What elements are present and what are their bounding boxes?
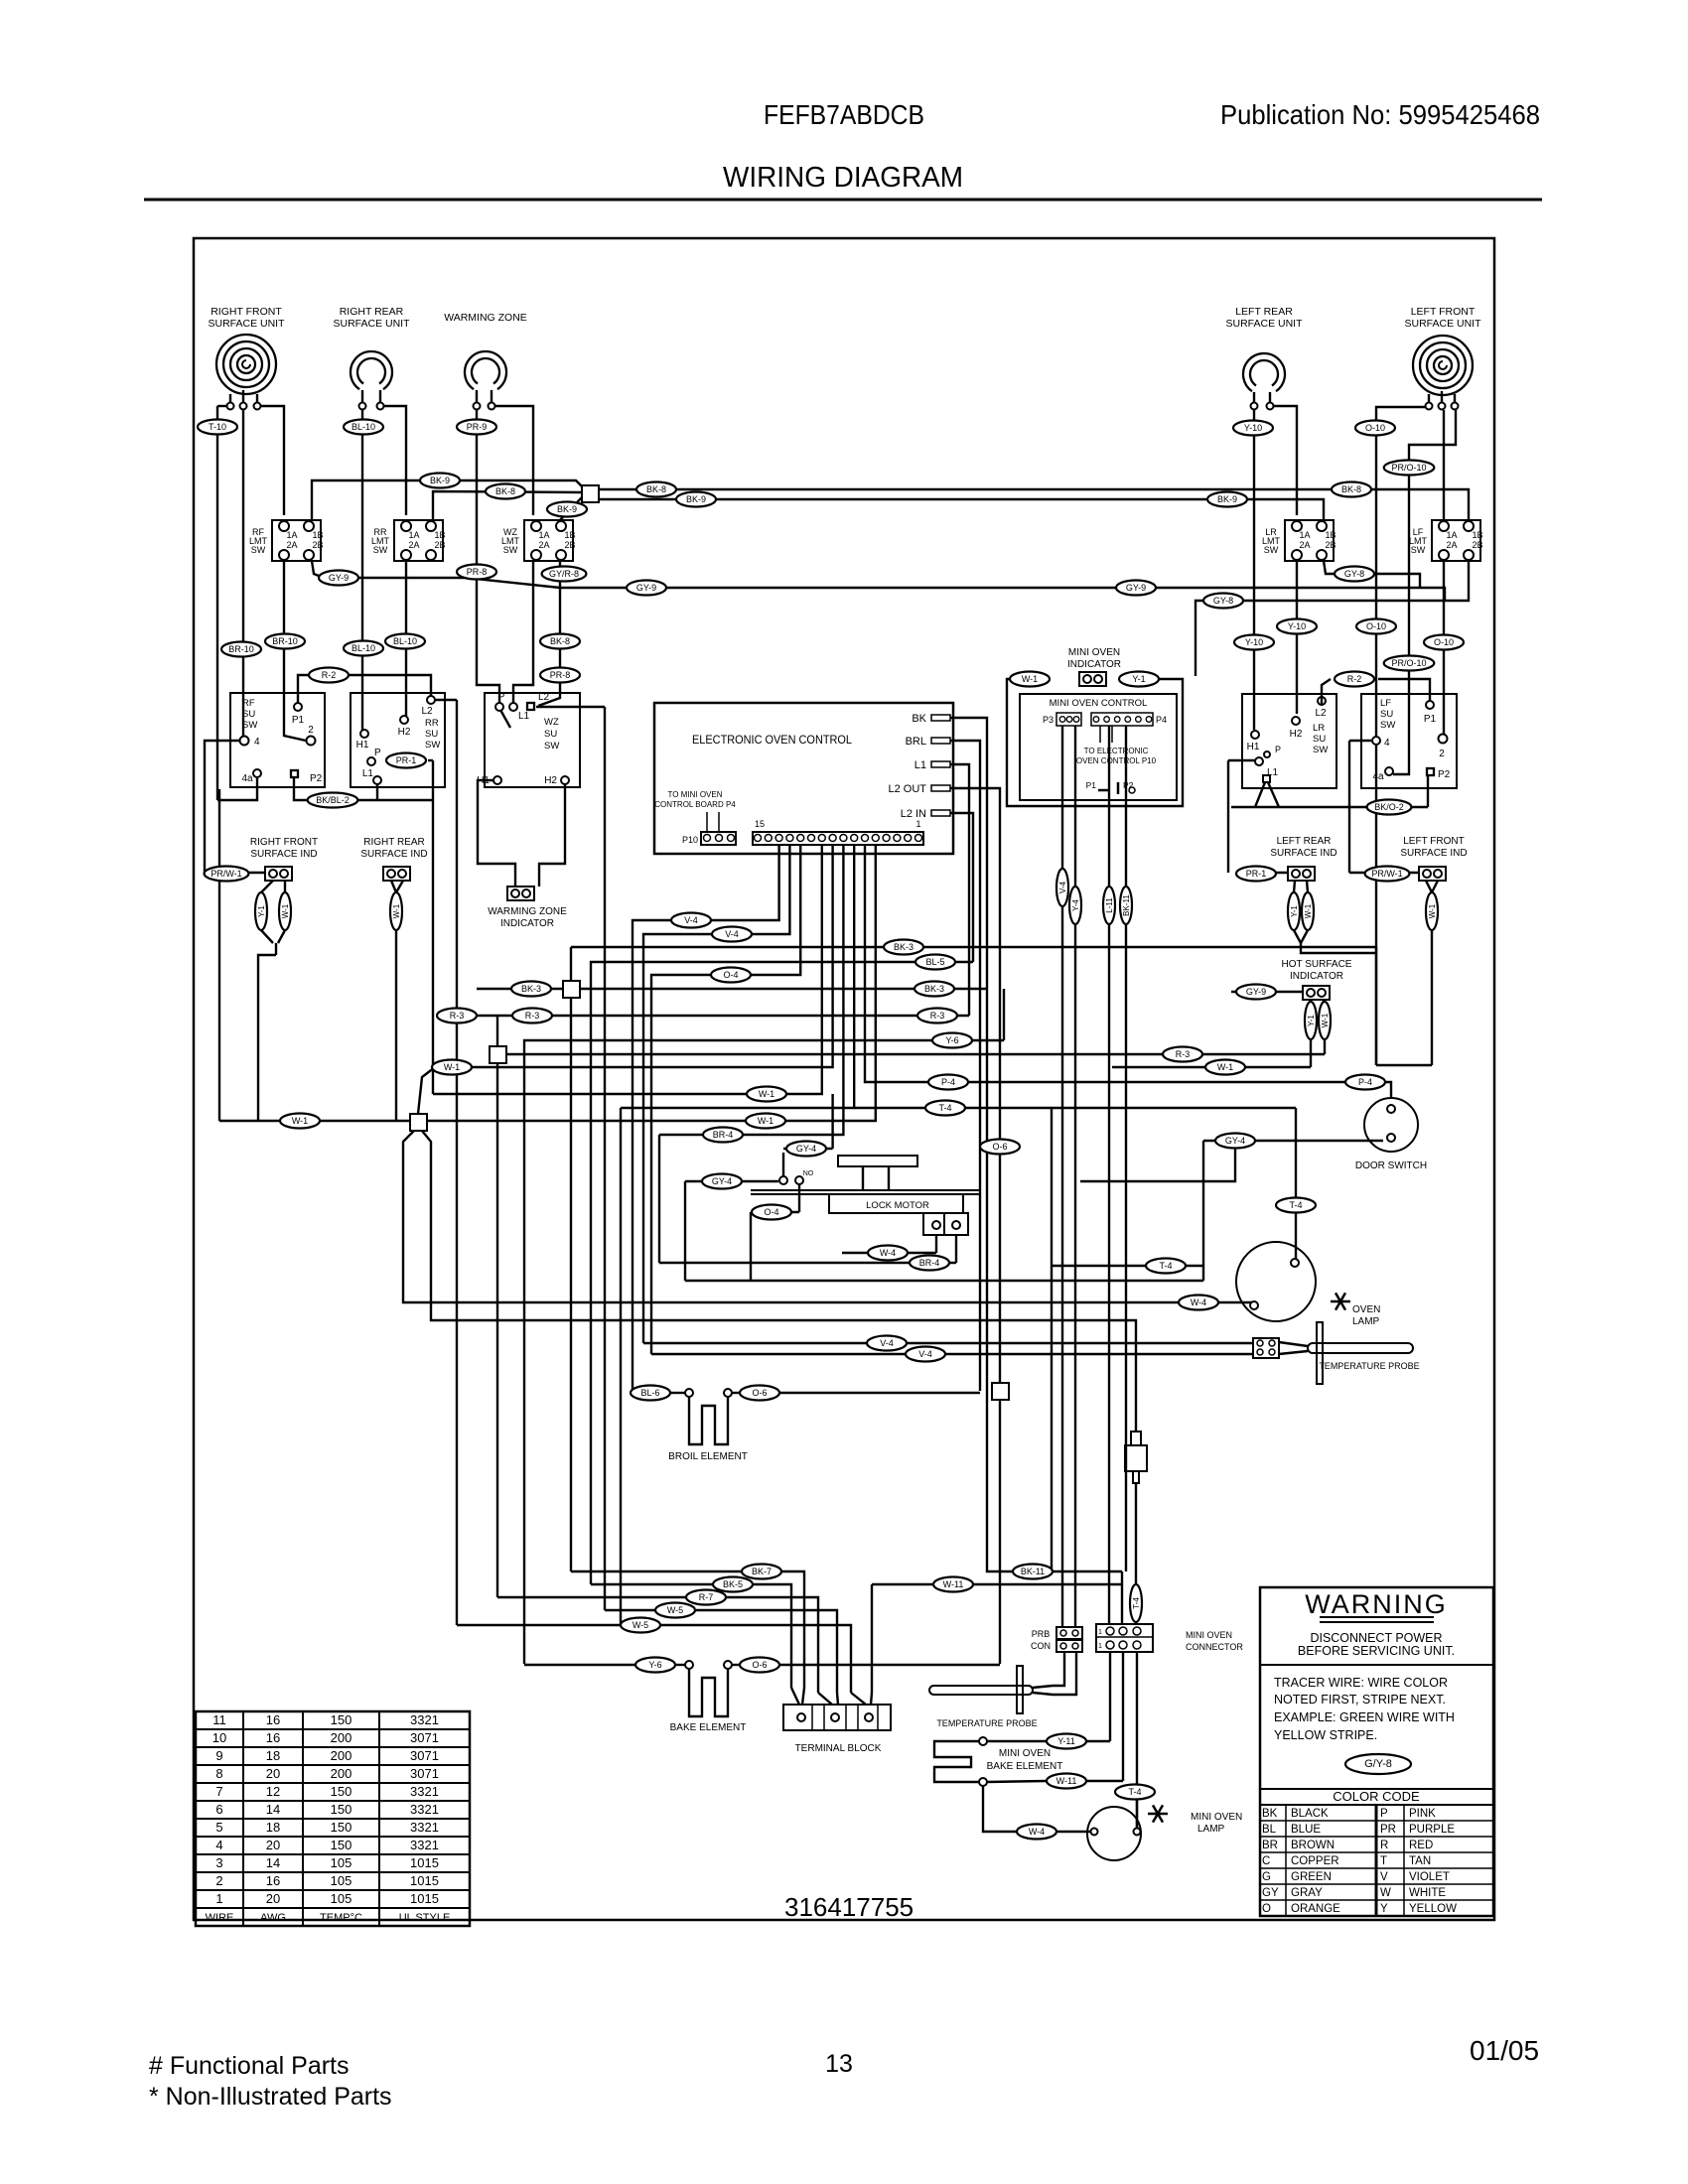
svg-text:150: 150 bbox=[331, 1784, 352, 1799]
svg-text:13: 13 bbox=[825, 2050, 853, 2078]
svg-text:GY-9: GY-9 bbox=[1246, 987, 1266, 997]
svg-text:CON: CON bbox=[1031, 1641, 1051, 1651]
svg-text:PURPLE: PURPLE bbox=[1409, 1824, 1455, 1836]
svg-text:200: 200 bbox=[331, 1766, 352, 1781]
svg-text:MINI OVEN: MINI OVEN bbox=[1191, 1812, 1242, 1823]
svg-text:P3: P3 bbox=[1043, 715, 1054, 725]
svg-text:Y: Y bbox=[1380, 1903, 1388, 1915]
svg-text:SU: SU bbox=[1380, 709, 1393, 720]
svg-text:2B: 2B bbox=[1472, 540, 1482, 550]
svg-text:200: 200 bbox=[331, 1730, 352, 1745]
svg-text:BAKE ELEMENT: BAKE ELEMENT bbox=[670, 1722, 747, 1733]
svg-text:1A: 1A bbox=[408, 530, 419, 540]
svg-text:TO ELECTRONIC: TO ELECTRONIC bbox=[1084, 747, 1149, 755]
svg-text:SURFACE UNIT: SURFACE UNIT bbox=[1404, 318, 1481, 330]
svg-text:O: O bbox=[1262, 1903, 1271, 1915]
svg-text:1015: 1015 bbox=[410, 1891, 439, 1906]
svg-text:4: 4 bbox=[1384, 738, 1390, 749]
svg-text:BK-8: BK-8 bbox=[495, 486, 515, 496]
svg-text:16: 16 bbox=[266, 1873, 280, 1888]
svg-text:BK-8: BK-8 bbox=[1341, 484, 1361, 494]
svg-text:BAKE ELEMENT: BAKE ELEMENT bbox=[987, 1761, 1063, 1772]
svg-text:3071: 3071 bbox=[410, 1748, 439, 1763]
svg-text:4a: 4a bbox=[241, 773, 253, 784]
svg-text:NO: NO bbox=[803, 1170, 814, 1177]
svg-text:1A: 1A bbox=[1446, 530, 1457, 540]
svg-text:P1: P1 bbox=[1086, 780, 1097, 790]
svg-text:1015: 1015 bbox=[410, 1873, 439, 1888]
svg-text:BK-9: BK-9 bbox=[1217, 494, 1237, 504]
svg-text:SW: SW bbox=[425, 740, 440, 751]
svg-text:BK/BL-2: BK/BL-2 bbox=[316, 795, 350, 805]
svg-text:P: P bbox=[1275, 745, 1281, 754]
svg-text:2B: 2B bbox=[312, 540, 323, 550]
svg-text:ELECTRONIC OVEN CONTROL: ELECTRONIC OVEN CONTROL bbox=[692, 735, 853, 747]
svg-text:YELLOW: YELLOW bbox=[1409, 1903, 1457, 1915]
svg-text:BROIL ELEMENT: BROIL ELEMENT bbox=[668, 1451, 748, 1462]
svg-text:V-4: V-4 bbox=[918, 1349, 932, 1359]
svg-text:1B: 1B bbox=[1325, 530, 1336, 540]
svg-text:BRL: BRL bbox=[906, 736, 926, 748]
svg-text:R-2: R-2 bbox=[1347, 674, 1362, 684]
svg-text:150: 150 bbox=[331, 1802, 352, 1817]
svg-text:W-1: W-1 bbox=[392, 903, 401, 918]
svg-text:W: W bbox=[1380, 1887, 1391, 1899]
svg-text:1A: 1A bbox=[286, 530, 297, 540]
svg-text:BK-5: BK-5 bbox=[723, 1579, 743, 1589]
svg-text:LEFT REAR: LEFT REAR bbox=[1235, 306, 1293, 318]
svg-text:INDICATOR: INDICATOR bbox=[500, 918, 554, 929]
svg-text:RIGHT FRONT: RIGHT FRONT bbox=[211, 306, 282, 318]
svg-text:316417755: 316417755 bbox=[784, 1892, 914, 1922]
svg-text:BK-11: BK-11 bbox=[1122, 894, 1131, 916]
svg-text:20: 20 bbox=[266, 1838, 280, 1852]
svg-text:1A: 1A bbox=[538, 530, 549, 540]
svg-text:DISCONNECT POWER: DISCONNECT POWER bbox=[1310, 1631, 1442, 1645]
svg-text:R-3: R-3 bbox=[930, 1011, 945, 1021]
svg-text:L2 IN: L2 IN bbox=[901, 808, 926, 820]
svg-text:Publication No: 5995425468: Publication No: 5995425468 bbox=[1220, 99, 1540, 130]
svg-text:SURFACE IND: SURFACE IND bbox=[1400, 848, 1467, 859]
svg-text:5: 5 bbox=[215, 1820, 222, 1835]
svg-text:DOOR SWITCH: DOOR SWITCH bbox=[1355, 1160, 1427, 1171]
svg-text:PR/W-1: PR/W-1 bbox=[1371, 869, 1402, 879]
svg-text:GY-4: GY-4 bbox=[712, 1176, 732, 1186]
svg-text:1B: 1B bbox=[312, 530, 323, 540]
svg-text:3321: 3321 bbox=[410, 1820, 439, 1835]
svg-text:H1: H1 bbox=[356, 740, 369, 751]
svg-text:1B: 1B bbox=[564, 530, 575, 540]
svg-text:C: C bbox=[1262, 1855, 1270, 1867]
svg-text:200: 200 bbox=[331, 1748, 352, 1763]
svg-text:W-1: W-1 bbox=[292, 1116, 308, 1126]
svg-text:BK-9: BK-9 bbox=[686, 494, 706, 504]
svg-text:W-1: W-1 bbox=[444, 1062, 460, 1072]
svg-text:BL-10: BL-10 bbox=[393, 636, 417, 646]
svg-text:PINK: PINK bbox=[1409, 1808, 1436, 1820]
svg-text:T-4: T-4 bbox=[1132, 1597, 1141, 1609]
svg-text:SURFACE IND: SURFACE IND bbox=[360, 849, 427, 860]
svg-text:BK: BK bbox=[1262, 1808, 1278, 1820]
svg-text:PR-8: PR-8 bbox=[467, 567, 488, 577]
svg-text:SW: SW bbox=[1411, 545, 1426, 555]
svg-text:2: 2 bbox=[215, 1873, 222, 1888]
svg-text:3071: 3071 bbox=[410, 1766, 439, 1781]
svg-text:15: 15 bbox=[755, 819, 765, 829]
svg-text:PR-1: PR-1 bbox=[396, 755, 417, 765]
svg-text:12: 12 bbox=[266, 1784, 280, 1799]
svg-text:3: 3 bbox=[215, 1855, 222, 1870]
svg-text:1015: 1015 bbox=[410, 1855, 439, 1870]
svg-text:SW: SW bbox=[373, 545, 388, 555]
svg-text:BL-6: BL-6 bbox=[640, 1388, 659, 1398]
svg-text:SURFACE IND: SURFACE IND bbox=[1270, 848, 1336, 859]
svg-text:SU: SU bbox=[1313, 734, 1326, 745]
svg-text:MINI OVEN: MINI OVEN bbox=[999, 1748, 1051, 1759]
svg-text:1: 1 bbox=[1098, 1643, 1102, 1650]
svg-text:V-4: V-4 bbox=[725, 929, 739, 939]
svg-text:LEFT FRONT: LEFT FRONT bbox=[1411, 306, 1476, 318]
svg-text:SW: SW bbox=[503, 545, 518, 555]
svg-text:V-4: V-4 bbox=[684, 915, 698, 925]
svg-text:1: 1 bbox=[1098, 1629, 1102, 1636]
svg-text:105: 105 bbox=[331, 1855, 352, 1870]
svg-text:L-11: L-11 bbox=[1105, 897, 1114, 913]
svg-text:BK-8: BK-8 bbox=[550, 636, 570, 646]
svg-text:BLACK: BLACK bbox=[1291, 1808, 1329, 1820]
svg-text:SW: SW bbox=[242, 720, 257, 731]
svg-text:W-11: W-11 bbox=[1056, 1776, 1077, 1786]
svg-text:BK-7: BK-7 bbox=[752, 1567, 772, 1576]
svg-text:BK-3: BK-3 bbox=[521, 984, 541, 994]
svg-text:T: T bbox=[1380, 1855, 1387, 1867]
svg-text:CONNECTOR: CONNECTOR bbox=[1186, 1642, 1243, 1652]
svg-text:BR-4: BR-4 bbox=[713, 1130, 734, 1140]
svg-text:1: 1 bbox=[215, 1891, 222, 1906]
svg-text:WARMING ZONE: WARMING ZONE bbox=[488, 906, 567, 917]
svg-text:BL: BL bbox=[1262, 1824, 1277, 1836]
svg-text:O-4: O-4 bbox=[723, 970, 738, 980]
svg-text:L2: L2 bbox=[421, 706, 433, 717]
svg-text:O-10: O-10 bbox=[1434, 637, 1454, 647]
svg-text:W-1: W-1 bbox=[1022, 674, 1038, 684]
svg-text:P: P bbox=[374, 748, 381, 758]
svg-text:PR/O-10: PR/O-10 bbox=[1391, 463, 1426, 473]
svg-text:RED: RED bbox=[1409, 1840, 1433, 1851]
svg-text:GY/R-8: GY/R-8 bbox=[549, 569, 579, 579]
svg-text:Y-1: Y-1 bbox=[257, 905, 266, 917]
svg-text:8: 8 bbox=[215, 1766, 222, 1781]
svg-text:Y-4: Y-4 bbox=[1071, 899, 1080, 911]
svg-text:TEMPERATURE PROBE: TEMPERATURE PROBE bbox=[1319, 1361, 1419, 1371]
svg-text:GY: GY bbox=[1262, 1887, 1279, 1899]
svg-text:* Non-Illustrated Parts: * Non-Illustrated Parts bbox=[149, 2083, 392, 2111]
svg-text:Y-10: Y-10 bbox=[1288, 621, 1306, 631]
svg-text:OVEN: OVEN bbox=[1352, 1304, 1380, 1315]
svg-text:2A: 2A bbox=[1299, 540, 1310, 550]
svg-text:SW: SW bbox=[1380, 720, 1395, 731]
svg-text:W-11: W-11 bbox=[943, 1579, 964, 1589]
svg-text:GY-9: GY-9 bbox=[1126, 583, 1146, 593]
svg-text:BK-8: BK-8 bbox=[646, 484, 666, 494]
svg-text:W-4: W-4 bbox=[880, 1248, 896, 1258]
svg-text:BK-9: BK-9 bbox=[557, 504, 577, 514]
svg-text:PR/W-1: PR/W-1 bbox=[211, 869, 241, 879]
svg-text:3321: 3321 bbox=[410, 1802, 439, 1817]
svg-text:W-4: W-4 bbox=[1029, 1827, 1045, 1837]
svg-text:AWG: AWG bbox=[260, 1912, 286, 1924]
svg-text:BR-10: BR-10 bbox=[228, 644, 254, 654]
svg-text:GY-8: GY-8 bbox=[1213, 596, 1233, 606]
svg-text:H2: H2 bbox=[544, 775, 557, 786]
svg-text:6: 6 bbox=[215, 1802, 222, 1817]
svg-text:WIRING DIAGRAM: WIRING DIAGRAM bbox=[723, 162, 963, 194]
svg-text:BK/O-2: BK/O-2 bbox=[1374, 802, 1404, 812]
svg-text:HOT SURFACE: HOT SURFACE bbox=[1282, 959, 1352, 970]
svg-text:SW: SW bbox=[251, 545, 266, 555]
svg-text:16: 16 bbox=[266, 1730, 280, 1745]
svg-text:SU: SU bbox=[425, 729, 438, 740]
svg-text:PR: PR bbox=[1380, 1824, 1396, 1836]
svg-text:BK-3: BK-3 bbox=[924, 984, 944, 994]
svg-text:LEFT FRONT: LEFT FRONT bbox=[1403, 836, 1464, 847]
svg-text:16: 16 bbox=[266, 1712, 280, 1727]
svg-text:ORANGE: ORANGE bbox=[1291, 1903, 1340, 1915]
svg-text:2B: 2B bbox=[434, 540, 445, 550]
svg-text:W-1: W-1 bbox=[1321, 1013, 1330, 1027]
svg-text:W-1: W-1 bbox=[1304, 903, 1313, 918]
svg-text:3321: 3321 bbox=[410, 1838, 439, 1852]
svg-text:20: 20 bbox=[266, 1766, 280, 1781]
svg-text:4a: 4a bbox=[1372, 771, 1384, 782]
svg-text:O-4: O-4 bbox=[764, 1207, 778, 1217]
svg-text:Y-6: Y-6 bbox=[648, 1660, 661, 1670]
svg-text:BK: BK bbox=[912, 713, 926, 725]
svg-text:01/05: 01/05 bbox=[1470, 2035, 1539, 2066]
svg-text:COLOR CODE: COLOR CODE bbox=[1333, 1789, 1420, 1804]
svg-text:V-4: V-4 bbox=[1058, 881, 1067, 893]
svg-text:W-1: W-1 bbox=[1428, 903, 1437, 918]
svg-text:O-10: O-10 bbox=[1365, 423, 1385, 433]
svg-text:GY-8: GY-8 bbox=[1344, 569, 1364, 579]
svg-text:P: P bbox=[1380, 1808, 1388, 1820]
svg-text:O-10: O-10 bbox=[1366, 621, 1386, 631]
svg-text:PR-1: PR-1 bbox=[1246, 869, 1267, 879]
svg-text:SW: SW bbox=[1264, 545, 1279, 555]
svg-text:R-3: R-3 bbox=[525, 1011, 540, 1021]
svg-text:BR: BR bbox=[1262, 1840, 1278, 1851]
svg-text:L2: L2 bbox=[1315, 708, 1327, 719]
svg-text:L1: L1 bbox=[914, 759, 926, 771]
svg-text:11: 11 bbox=[212, 1712, 226, 1727]
svg-text:1A: 1A bbox=[1299, 530, 1310, 540]
svg-text:P-4: P-4 bbox=[1358, 1077, 1372, 1087]
svg-text:G/Y-8: G/Y-8 bbox=[1364, 1758, 1392, 1770]
svg-text:Y-11: Y-11 bbox=[1057, 1736, 1075, 1746]
svg-text:OVEN CONTROL P10: OVEN CONTROL P10 bbox=[1076, 756, 1157, 765]
svg-text:TEMP°C: TEMP°C bbox=[320, 1912, 362, 1924]
svg-text:BL-10: BL-10 bbox=[352, 643, 375, 653]
svg-text:SURFACE UNIT: SURFACE UNIT bbox=[208, 318, 285, 330]
svg-text:H2: H2 bbox=[1290, 729, 1303, 740]
svg-text:GY-4: GY-4 bbox=[1225, 1136, 1245, 1146]
svg-text:GY-4: GY-4 bbox=[796, 1144, 816, 1154]
svg-text:3071: 3071 bbox=[410, 1730, 439, 1745]
svg-text:W-1: W-1 bbox=[759, 1089, 774, 1099]
svg-text:T-4: T-4 bbox=[1128, 1787, 1141, 1797]
svg-text:2B: 2B bbox=[1325, 540, 1336, 550]
svg-text:RIGHT REAR: RIGHT REAR bbox=[363, 837, 425, 848]
svg-text:1B: 1B bbox=[1472, 530, 1482, 540]
svg-text:BK-9: BK-9 bbox=[430, 476, 450, 485]
svg-text:2: 2 bbox=[308, 725, 314, 736]
svg-text:14: 14 bbox=[266, 1855, 280, 1870]
svg-text:Y-10: Y-10 bbox=[1245, 637, 1263, 647]
svg-text:BR-4: BR-4 bbox=[919, 1258, 940, 1268]
svg-text:SU: SU bbox=[544, 729, 557, 740]
svg-text:P2: P2 bbox=[310, 773, 323, 784]
svg-text:150: 150 bbox=[331, 1820, 352, 1835]
svg-text:LEFT REAR: LEFT REAR bbox=[1277, 836, 1332, 847]
svg-text:BR-10: BR-10 bbox=[272, 636, 298, 646]
svg-text:RIGHT REAR: RIGHT REAR bbox=[340, 306, 404, 318]
svg-text:MINI OVEN: MINI OVEN bbox=[1186, 1630, 1232, 1640]
svg-text:BK-11: BK-11 bbox=[1021, 1567, 1045, 1576]
svg-text:R-3: R-3 bbox=[1176, 1049, 1191, 1059]
svg-text:150: 150 bbox=[331, 1712, 352, 1727]
svg-text:SURFACE UNIT: SURFACE UNIT bbox=[333, 318, 410, 330]
svg-text:T-4: T-4 bbox=[1289, 1200, 1302, 1210]
svg-text:GRAY: GRAY bbox=[1291, 1887, 1323, 1899]
svg-text:T-10: T-10 bbox=[209, 422, 226, 432]
svg-text:14: 14 bbox=[266, 1802, 280, 1817]
svg-text:NOTED FIRST, STRIPE NEXT.: NOTED FIRST, STRIPE NEXT. bbox=[1274, 1693, 1446, 1706]
svg-text:GY-9: GY-9 bbox=[329, 573, 349, 583]
svg-text:P2: P2 bbox=[1438, 769, 1451, 780]
svg-text:L1: L1 bbox=[1267, 767, 1279, 778]
svg-text:PR-8: PR-8 bbox=[550, 670, 571, 680]
svg-text:18: 18 bbox=[266, 1820, 280, 1835]
svg-text:2A: 2A bbox=[1446, 540, 1457, 550]
svg-text:PR-9: PR-9 bbox=[467, 422, 488, 432]
svg-text:P4: P4 bbox=[1156, 715, 1167, 725]
svg-text:R: R bbox=[1380, 1840, 1388, 1851]
svg-text:TAN: TAN bbox=[1409, 1855, 1431, 1867]
svg-text:T-4: T-4 bbox=[1159, 1261, 1172, 1271]
svg-text:GREEN: GREEN bbox=[1291, 1871, 1332, 1883]
svg-text:O-6: O-6 bbox=[992, 1142, 1007, 1152]
svg-text:Y-1: Y-1 bbox=[1290, 905, 1299, 917]
svg-text:O-6: O-6 bbox=[752, 1660, 767, 1670]
svg-text:W-4: W-4 bbox=[1191, 1297, 1206, 1307]
svg-text:Y-1: Y-1 bbox=[1132, 674, 1145, 684]
svg-text:WIRE: WIRE bbox=[206, 1912, 234, 1924]
svg-text:R-3: R-3 bbox=[450, 1011, 465, 1021]
svg-text:1B: 1B bbox=[434, 530, 445, 540]
svg-text:FEFB7ABDCB: FEFB7ABDCB bbox=[764, 99, 924, 130]
svg-text:SURFACE IND: SURFACE IND bbox=[250, 849, 317, 860]
svg-text:MINI OVEN: MINI OVEN bbox=[1068, 647, 1120, 658]
svg-text:CONTROL BOARD P4: CONTROL BOARD P4 bbox=[654, 800, 736, 809]
svg-text:BL-5: BL-5 bbox=[925, 957, 944, 967]
svg-text:MINI OVEN CONTROL: MINI OVEN CONTROL bbox=[1050, 698, 1148, 709]
svg-text:4: 4 bbox=[215, 1838, 222, 1852]
svg-text:2A: 2A bbox=[538, 540, 549, 550]
svg-text:GY-9: GY-9 bbox=[636, 583, 656, 593]
svg-text:H2: H2 bbox=[398, 727, 411, 738]
svg-text:SURFACE UNIT: SURFACE UNIT bbox=[1225, 318, 1303, 330]
svg-text:RIGHT FRONT: RIGHT FRONT bbox=[250, 837, 318, 848]
svg-text:BL-10: BL-10 bbox=[352, 422, 375, 432]
svg-text:W-1: W-1 bbox=[1217, 1062, 1233, 1072]
svg-text:O-6: O-6 bbox=[752, 1388, 767, 1398]
svg-text:18: 18 bbox=[266, 1748, 280, 1763]
svg-text:105: 105 bbox=[331, 1873, 352, 1888]
svg-text:L1: L1 bbox=[518, 711, 530, 722]
svg-text:2A: 2A bbox=[408, 540, 419, 550]
svg-text:LAMP: LAMP bbox=[1197, 1824, 1225, 1835]
svg-text:2: 2 bbox=[1439, 749, 1445, 759]
svg-text:L2 OUT: L2 OUT bbox=[888, 783, 926, 795]
svg-text:4: 4 bbox=[254, 737, 260, 748]
svg-text:R-7: R-7 bbox=[699, 1592, 714, 1602]
svg-text:L1: L1 bbox=[362, 768, 374, 779]
svg-text:RR: RR bbox=[425, 718, 439, 729]
svg-text:SW: SW bbox=[1313, 745, 1328, 755]
svg-text:UL STYLE: UL STYLE bbox=[399, 1912, 451, 1924]
svg-text:WHITE: WHITE bbox=[1409, 1887, 1446, 1899]
svg-text:SW: SW bbox=[544, 741, 559, 751]
svg-text:WARMING ZONE: WARMING ZONE bbox=[444, 312, 527, 324]
svg-text:Y-10: Y-10 bbox=[1244, 423, 1262, 433]
svg-text:W-5: W-5 bbox=[633, 1620, 648, 1630]
svg-text:VIOLET: VIOLET bbox=[1409, 1871, 1450, 1883]
svg-text:150: 150 bbox=[331, 1838, 352, 1852]
svg-text:BROWN: BROWN bbox=[1291, 1840, 1335, 1851]
svg-text:TEMPERATURE PROBE: TEMPERATURE PROBE bbox=[936, 1718, 1037, 1728]
svg-text:W-5: W-5 bbox=[667, 1605, 683, 1615]
svg-text:V: V bbox=[1380, 1871, 1388, 1883]
svg-text:Y-1: Y-1 bbox=[1307, 1015, 1316, 1026]
svg-text:BLUE: BLUE bbox=[1291, 1824, 1321, 1836]
svg-text:3321: 3321 bbox=[410, 1784, 439, 1799]
svg-text:P10: P10 bbox=[682, 835, 698, 845]
svg-text:TERMINAL BLOCK: TERMINAL BLOCK bbox=[795, 1743, 882, 1754]
svg-text:TO MINI OVEN: TO MINI OVEN bbox=[668, 790, 723, 799]
svg-text:P1: P1 bbox=[292, 715, 305, 726]
svg-text:TRACER WIRE: WIRE COLOR: TRACER WIRE: WIRE COLOR bbox=[1274, 1676, 1448, 1690]
svg-text:P1: P1 bbox=[1424, 714, 1437, 725]
svg-text:COPPER: COPPER bbox=[1291, 1855, 1339, 1867]
svg-text:LR: LR bbox=[1313, 723, 1325, 734]
svg-text:P-4: P-4 bbox=[941, 1077, 955, 1087]
svg-text:105: 105 bbox=[331, 1891, 352, 1906]
svg-text:# Functional Parts: # Functional Parts bbox=[149, 2052, 350, 2080]
svg-text:G: G bbox=[1262, 1871, 1271, 1883]
svg-text:20: 20 bbox=[266, 1891, 280, 1906]
svg-text:H1: H1 bbox=[1247, 742, 1260, 752]
svg-text:T-4: T-4 bbox=[938, 1103, 951, 1113]
svg-text:LAMP: LAMP bbox=[1352, 1316, 1380, 1327]
svg-text:INDICATOR: INDICATOR bbox=[1290, 971, 1343, 982]
svg-text:BK-3: BK-3 bbox=[894, 942, 914, 952]
svg-text:PR/O-10: PR/O-10 bbox=[1391, 658, 1426, 668]
svg-text:W-1: W-1 bbox=[281, 903, 290, 918]
svg-text:3321: 3321 bbox=[410, 1712, 439, 1727]
svg-text:10: 10 bbox=[212, 1730, 226, 1745]
svg-text:7: 7 bbox=[215, 1784, 222, 1799]
svg-text:BEFORE SERVICING UNIT.: BEFORE SERVICING UNIT. bbox=[1298, 1644, 1455, 1658]
